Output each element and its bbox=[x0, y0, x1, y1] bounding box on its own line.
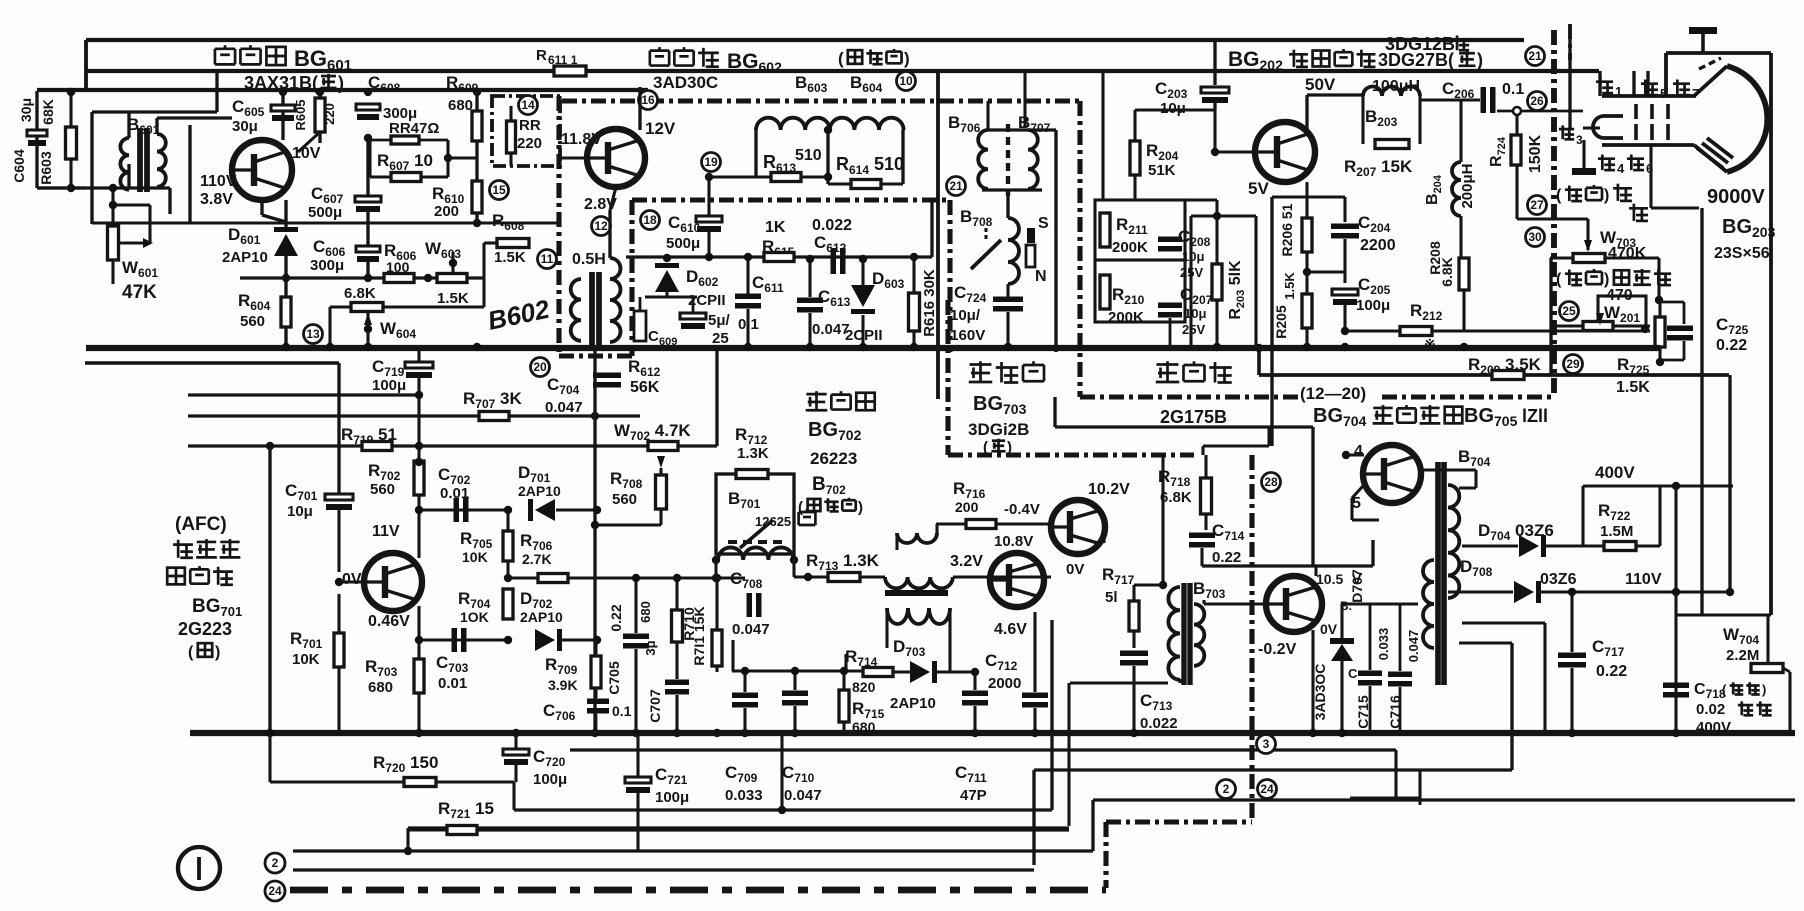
node junctions left bbox=[67, 88, 75, 192]
label 0.047 mid bbox=[0, 0, 1, 1]
label 显4显6 bbox=[1598, 155, 1653, 176]
label 显5 bbox=[1641, 80, 1667, 101]
wire x1570 bbox=[1568, 24, 1571, 129]
svg-text:20: 20 bbox=[533, 360, 547, 374]
svg-text:2200: 2200 bbox=[1360, 237, 1396, 254]
node 13 bbox=[304, 325, 323, 344]
resistor R607 bbox=[370, 140, 448, 182]
svg-text:10μ: 10μ bbox=[1184, 306, 1206, 321]
svg-text:100μ: 100μ bbox=[1356, 297, 1390, 314]
wire vertical x938 bbox=[936, 71, 940, 399]
svg-text:680: 680 bbox=[448, 97, 473, 114]
resistor R605 bbox=[293, 88, 337, 152]
wire y416 bbox=[188, 414, 640, 417]
svg-text:lZll: lZll bbox=[1522, 406, 1548, 426]
label 2G175B bbox=[1160, 407, 1227, 427]
svg-text:1.5M: 1.5M bbox=[1600, 523, 1633, 540]
transistor BG701 bbox=[335, 553, 422, 611]
svg-text:C715: C715 bbox=[1355, 695, 1371, 729]
crt screen arc bbox=[1727, 66, 1767, 172]
resistor R203 bbox=[1103, 200, 1256, 347]
wire y446 bbox=[188, 444, 717, 447]
svg-text:7: 7 bbox=[1692, 86, 1699, 101]
capacitor C706 bbox=[543, 699, 632, 736]
wire emitter bg702c bbox=[1034, 607, 1036, 612]
svg-text:24: 24 bbox=[268, 884, 282, 898]
label C709 bbox=[725, 763, 763, 804]
svg-text:21: 21 bbox=[949, 179, 963, 193]
svg-text:10.5: 10.5 bbox=[1316, 571, 1343, 587]
magnet S N bbox=[1026, 215, 1049, 285]
svg-text:0.047: 0.047 bbox=[812, 321, 850, 338]
svg-text:C716: C716 bbox=[1387, 695, 1403, 729]
capacitor C613 bbox=[797, 255, 851, 347]
wire emitter BG202 bbox=[1305, 182, 1308, 195]
svg-text:R616 30K: R616 30K bbox=[921, 269, 938, 337]
svg-text:510: 510 bbox=[795, 147, 822, 164]
svg-text:0.46V: 0.46V bbox=[368, 613, 410, 630]
wire y375 bbox=[1255, 344, 1730, 592]
wire B704 sec top bbox=[1433, 540, 1435, 560]
wire collector out bbox=[1202, 540, 1373, 576]
svg-text:220: 220 bbox=[322, 103, 337, 125]
capacitor C715 bbox=[1348, 604, 1391, 735]
wire C203 vert bbox=[1213, 40, 1216, 85]
resistor R704 bbox=[458, 589, 513, 644]
label 行放大 bbox=[968, 361, 1044, 456]
svg-text:0.047: 0.047 bbox=[784, 787, 822, 804]
wire y257 bbox=[626, 200, 932, 257]
svg-text:500μ: 500μ bbox=[666, 235, 700, 252]
resistor RR47 bbox=[368, 120, 448, 144]
capacitor C708 bbox=[716, 554, 770, 638]
svg-text:3μ: 3μ bbox=[643, 640, 658, 655]
label 3AX31B(灰) bbox=[244, 73, 344, 93]
svg-text:11.8V: 11.8V bbox=[561, 131, 602, 148]
resistor R211 bbox=[1095, 200, 1185, 260]
svg-text:12: 12 bbox=[594, 219, 608, 233]
diode D601 bbox=[222, 200, 298, 278]
svg-text:2G223: 2G223 bbox=[178, 619, 232, 639]
box R206 bbox=[1272, 197, 1345, 222]
svg-text:3DGi2B: 3DGi2B bbox=[968, 420, 1029, 439]
wire 2.8V supply bbox=[417, 347, 420, 362]
wire B703 bottom bbox=[1069, 679, 1180, 826]
potentiometer W201 bbox=[1556, 296, 1650, 333]
capacitor C208 bbox=[1158, 227, 1211, 280]
label R725 bbox=[1616, 355, 1650, 396]
label 显7 bbox=[1673, 80, 1699, 101]
capacitor C717 bbox=[1558, 588, 1627, 731]
svg-text:9000V: 9000V bbox=[1707, 186, 1765, 208]
crt deflection hatch bbox=[1697, 138, 1733, 168]
wire y331 left bbox=[1345, 330, 1462, 332]
coil B204 bbox=[1424, 162, 1476, 216]
transformer B203 bbox=[1344, 87, 1420, 180]
wire y525 bbox=[591, 521, 661, 529]
label 11.8V bbox=[561, 131, 602, 148]
transistor BG704 bbox=[1342, 427, 1421, 512]
svg-text:D707: D707 bbox=[1349, 569, 1365, 603]
svg-text:28: 28 bbox=[1264, 475, 1278, 489]
svg-text:10: 10 bbox=[899, 74, 913, 88]
shield dash y397 bbox=[1080, 394, 1553, 399]
label 10.8V bbox=[994, 533, 1033, 550]
svg-text:29: 29 bbox=[1566, 357, 1580, 371]
svg-text:0.22: 0.22 bbox=[1212, 549, 1241, 566]
wire B602 top bbox=[610, 187, 616, 210]
transformer B706 B707 bbox=[978, 124, 1042, 196]
capacitor C206 bbox=[1442, 79, 1524, 113]
capacitor C712 bbox=[975, 612, 1048, 735]
node 24 right bbox=[1258, 780, 1277, 799]
svg-text:0.1: 0.1 bbox=[612, 703, 632, 719]
svg-text:R205: R205 bbox=[1273, 305, 1289, 339]
svg-text:24: 24 bbox=[1260, 782, 1274, 796]
wire c206 out bbox=[1497, 107, 1583, 115]
svg-text:R720 150: R720 150 bbox=[373, 753, 438, 775]
svg-text:): ) bbox=[904, 49, 910, 68]
svg-text:18: 18 bbox=[643, 213, 657, 227]
wire left bus bbox=[37, 88, 648, 92]
svg-text:R603: R603 bbox=[38, 151, 54, 185]
label 行输出 bbox=[1156, 361, 1232, 382]
svg-text:47K: 47K bbox=[122, 282, 157, 303]
svg-text:0.5H: 0.5H bbox=[572, 251, 606, 268]
wire left rail join bbox=[84, 40, 88, 92]
svg-text:5μ/: 5μ/ bbox=[708, 312, 731, 329]
wire x1163 bbox=[1159, 455, 1167, 589]
label BG202 heading bbox=[1228, 48, 1483, 73]
diode D702 bbox=[520, 589, 563, 651]
svg-text:1K: 1K bbox=[765, 219, 786, 236]
svg-text:2.7K: 2.7K bbox=[522, 551, 552, 567]
svg-text:): ) bbox=[1604, 271, 1609, 288]
svg-text:3.2V: 3.2V bbox=[950, 553, 983, 570]
svg-text:16: 16 bbox=[641, 93, 655, 107]
svg-text:0.033: 0.033 bbox=[725, 787, 763, 804]
svg-text:13: 13 bbox=[306, 327, 320, 341]
svg-text:R614 510: R614 510 bbox=[836, 154, 904, 177]
svg-text:10K: 10K bbox=[292, 651, 320, 668]
svg-text:(: ( bbox=[838, 49, 844, 68]
crt neck bbox=[1602, 66, 1727, 172]
svg-text:(12—20): (12—20) bbox=[1300, 384, 1366, 403]
dash bottom bbox=[290, 822, 1252, 890]
svg-text:611 1: 611 1 bbox=[548, 53, 578, 67]
wire bg701 collector bbox=[417, 495, 420, 558]
label 12V bbox=[645, 119, 676, 138]
resistor R205 bbox=[1273, 272, 1312, 347]
label 3DG12B或 bbox=[1385, 34, 1545, 66]
svg-text:0V: 0V bbox=[342, 571, 362, 588]
svg-text:0.022: 0.022 bbox=[1140, 715, 1178, 732]
driver coil main bbox=[885, 577, 953, 596]
svg-text:2AP10: 2AP10 bbox=[222, 249, 268, 266]
svg-text:2000: 2000 bbox=[988, 675, 1021, 692]
label C608 bbox=[368, 73, 401, 95]
svg-text:100μ: 100μ bbox=[655, 789, 689, 806]
wire driver secondary bbox=[887, 608, 950, 672]
label C711 bbox=[955, 763, 987, 804]
transformer B706 B707 labels bbox=[948, 72, 1051, 135]
svg-text:R: R bbox=[536, 47, 547, 64]
svg-text:0.1: 0.1 bbox=[738, 316, 759, 333]
resistor R716 bbox=[936, 479, 1051, 529]
svg-text:W702 4.7K: W702 4.7K bbox=[614, 421, 691, 443]
svg-text:30μ: 30μ bbox=[18, 98, 34, 122]
svg-text:56K: 56K bbox=[630, 379, 660, 396]
transistor BG202 bbox=[1255, 122, 1315, 182]
transformer B708 bbox=[960, 190, 1019, 284]
svg-text:(: ( bbox=[1556, 187, 1562, 204]
crt outer box bbox=[1666, 53, 1771, 615]
wire BG202 collector bbox=[1305, 75, 1363, 129]
node 2 right bbox=[1217, 780, 1236, 799]
label B602 script bbox=[485, 293, 553, 335]
label 300μ C608 bbox=[383, 105, 417, 122]
svg-text:11V: 11V bbox=[372, 523, 400, 540]
node 10 bbox=[897, 72, 916, 91]
crt bias wire bbox=[1651, 145, 1702, 615]
svg-text:(: ( bbox=[1556, 271, 1562, 288]
capacitor C705 bbox=[606, 574, 649, 735]
capacitor C204 bbox=[1307, 213, 1396, 283]
potentiometer W603 bbox=[424, 239, 467, 283]
svg-text:1.5K: 1.5K bbox=[437, 290, 469, 307]
svg-text:2: 2 bbox=[272, 856, 279, 870]
svg-text:11: 11 bbox=[541, 252, 554, 266]
resistor R610 bbox=[432, 141, 482, 223]
label 0.46V bbox=[368, 613, 410, 630]
svg-text:3.9K: 3.9K bbox=[548, 677, 578, 693]
svg-text:500μ: 500μ bbox=[308, 204, 342, 221]
label R612 56K bbox=[628, 357, 661, 396]
svg-text:10.2V: 10.2V bbox=[1088, 481, 1130, 498]
svg-text:2: 2 bbox=[1223, 782, 1230, 796]
resistor R721 bbox=[408, 799, 1069, 835]
capacitor C606 bbox=[310, 236, 380, 282]
svg-text:): ) bbox=[1762, 682, 1766, 697]
svg-text:-0.4V: -0.4V bbox=[1004, 501, 1040, 518]
transformer B703 bbox=[1168, 579, 1225, 685]
svg-text:23S×56: 23S×56 bbox=[1714, 245, 1770, 262]
capacitor C704 bbox=[545, 373, 621, 421]
label 11V bbox=[372, 523, 400, 540]
shield box RR220 bbox=[492, 96, 560, 166]
label 0V bg701 bbox=[342, 571, 362, 588]
capacitor C716 bbox=[1342, 604, 1421, 735]
resistor R609 body bbox=[448, 88, 482, 141]
resistor R210 bbox=[1095, 260, 1185, 326]
svg-text:25: 25 bbox=[1562, 304, 1576, 318]
capacitor mid1 bbox=[732, 667, 758, 737]
svg-text:4: 4 bbox=[1354, 443, 1363, 460]
svg-text:RR: RR bbox=[519, 117, 541, 134]
shield dash y200 bbox=[632, 197, 950, 202]
svg-text:R206 51: R206 51 bbox=[1279, 203, 1295, 256]
wire 6.8K bbox=[330, 307, 484, 347]
transistor BG602 bbox=[587, 129, 645, 187]
shield dash y100 bbox=[562, 98, 1080, 103]
label (面板)对比度 bbox=[1556, 269, 1671, 288]
svg-text:1.5K: 1.5K bbox=[1282, 272, 1297, 300]
wire base BG202 bbox=[1211, 110, 1255, 156]
crt gun bbox=[1583, 116, 1623, 138]
wire x270 bbox=[268, 446, 271, 735]
svg-text:30: 30 bbox=[1528, 230, 1542, 244]
wire y95 330 B204 bbox=[0, 0, 1, 1]
capacitor 5μ25 bbox=[680, 297, 731, 347]
resistor R615 body bbox=[764, 253, 794, 262]
resistor R209 bbox=[1468, 355, 1542, 380]
potentiometer W604 bbox=[364, 312, 417, 347]
capacitor C207 bbox=[1158, 285, 1213, 347]
svg-text:0.22: 0.22 bbox=[1596, 663, 1627, 680]
wire d602 bottom bbox=[645, 295, 697, 298]
node 19 bbox=[702, 153, 721, 172]
shield dash x950 bbox=[947, 200, 952, 352]
label (蓝或绿) bbox=[838, 49, 910, 68]
resistor R719 bbox=[266, 425, 397, 451]
transformer B601 bbox=[37, 72, 232, 224]
resistor 6.8K bbox=[344, 285, 383, 312]
label B603 B604 bbox=[795, 73, 883, 95]
svg-text:150K: 150K bbox=[1527, 134, 1544, 173]
box B701 bbox=[716, 474, 794, 554]
wire R607 to R610 bbox=[444, 154, 477, 162]
label C725 bbox=[1716, 315, 1749, 354]
resistor R711 bbox=[691, 574, 722, 672]
resistor R717 bbox=[1102, 565, 1163, 648]
circled 1 bbox=[178, 847, 220, 889]
crt grid pins bbox=[1636, 104, 1668, 140]
svg-text:(: ( bbox=[1722, 682, 1727, 697]
svg-text:0.047: 0.047 bbox=[1406, 630, 1421, 663]
diode D603 bbox=[845, 255, 905, 347]
svg-text:(AFC): (AFC) bbox=[175, 514, 227, 535]
diode D703 bbox=[890, 661, 975, 712]
svg-text:15: 15 bbox=[492, 183, 506, 197]
svg-text:6.8K: 6.8K bbox=[344, 285, 376, 302]
wire coil to base bbox=[804, 573, 1051, 581]
shield dash vertical x559 bbox=[556, 96, 561, 356]
resistor R603 bbox=[38, 92, 77, 188]
wire emitter out bbox=[1311, 630, 1314, 735]
svg-text:300μ: 300μ bbox=[310, 257, 344, 274]
svg-text:1: 1 bbox=[1615, 84, 1622, 99]
svg-text:220: 220 bbox=[517, 135, 542, 152]
capacitor C607 bbox=[308, 88, 381, 236]
svg-text:200: 200 bbox=[955, 499, 979, 515]
label 0V mid bbox=[1066, 561, 1084, 578]
svg-text:(: ( bbox=[188, 644, 194, 661]
capacitor mid3 bbox=[962, 668, 988, 737]
resistor R701 bbox=[290, 594, 344, 735]
capacitor C612 bbox=[812, 217, 852, 274]
svg-text:10.8V: 10.8V bbox=[994, 533, 1033, 550]
wire y830 bbox=[477, 828, 1069, 830]
capacitor C713 bbox=[1140, 691, 1178, 732]
svg-text:47P: 47P bbox=[960, 787, 987, 804]
svg-text:2AP10: 2AP10 bbox=[890, 695, 936, 712]
label 4.6V bbox=[994, 621, 1027, 638]
svg-text:0.047: 0.047 bbox=[545, 399, 583, 416]
resistor R606 bbox=[384, 241, 417, 283]
wire R718 chain bbox=[1162, 455, 1164, 585]
shield dash x1080 bbox=[1077, 101, 1082, 397]
capacitor C701 bbox=[285, 481, 353, 572]
wire y851 bbox=[293, 800, 1795, 851]
wire y446 bbox=[1203, 197, 1272, 455]
resistor R712 bbox=[735, 425, 769, 479]
svg-text:19: 19 bbox=[704, 155, 718, 169]
label R609 bbox=[446, 73, 479, 95]
svg-text:110V: 110V bbox=[1625, 571, 1662, 588]
label 5V bbox=[1248, 179, 1269, 198]
svg-text:25V: 25V bbox=[1182, 322, 1205, 337]
label heading 帧振荡 BG601 bbox=[215, 45, 352, 74]
node 3 bbox=[1257, 735, 1276, 754]
svg-text:3AD3ΟC: 3AD3ΟC bbox=[1312, 664, 1328, 721]
wire x1676 bbox=[1674, 486, 1677, 731]
node 20 mid bbox=[531, 358, 550, 377]
svg-text:C705: C705 bbox=[606, 661, 622, 695]
svg-text:4: 4 bbox=[1617, 161, 1625, 176]
svg-text:2G175B: 2G175B bbox=[1160, 407, 1227, 427]
node 29 bbox=[1564, 355, 1583, 374]
svg-text:560: 560 bbox=[612, 491, 637, 508]
capacitor C707 bbox=[643, 574, 689, 735]
shield dash corner bbox=[559, 353, 633, 358]
wire y331 bbox=[1345, 329, 1650, 332]
wire y828 bbox=[404, 828, 1069, 855]
svg-text:5: 5 bbox=[1660, 86, 1667, 101]
capacitor C714 bbox=[1189, 521, 1245, 566]
coil B701 winding bbox=[712, 547, 798, 564]
capacitor C611 bbox=[735, 253, 784, 347]
wire y810 bbox=[514, 620, 1052, 810]
resistor R722 bbox=[1583, 486, 1660, 551]
wire B706 top bbox=[988, 101, 1056, 352]
diode D704 bbox=[1462, 521, 1605, 557]
capacitor C203 bbox=[1155, 79, 1229, 117]
wire B703 right top bbox=[1204, 600, 1264, 604]
node 24 left bbox=[265, 881, 285, 901]
resistor RR220 bbox=[507, 106, 543, 166]
svg-text:26223: 26223 bbox=[810, 449, 857, 468]
svg-text:S: S bbox=[1038, 215, 1049, 232]
capacitor C720 bbox=[503, 729, 567, 788]
svg-text:C604: C604 bbox=[11, 149, 27, 183]
label 0.5H bbox=[572, 251, 606, 268]
crt pin box bbox=[1600, 71, 1666, 96]
label AFC bbox=[167, 514, 242, 661]
svg-text:25: 25 bbox=[712, 330, 729, 347]
svg-text:5l: 5l bbox=[1105, 589, 1118, 606]
label 显3 bbox=[1559, 125, 1583, 147]
capacitor R717c bbox=[1120, 651, 1148, 736]
svg-text:10V: 10V bbox=[292, 145, 321, 162]
wire emitter bg601 bbox=[262, 200, 286, 222]
resistor R705 bbox=[460, 506, 513, 582]
svg-text:): ) bbox=[1604, 187, 1609, 204]
svg-text:100μ: 100μ bbox=[533, 771, 567, 788]
svg-text:1.5K: 1.5K bbox=[1616, 379, 1650, 396]
crt anode dash bbox=[1699, 58, 1721, 69]
svg-text:51K: 51K bbox=[1148, 162, 1176, 179]
resistor R208 bbox=[1427, 216, 1469, 331]
